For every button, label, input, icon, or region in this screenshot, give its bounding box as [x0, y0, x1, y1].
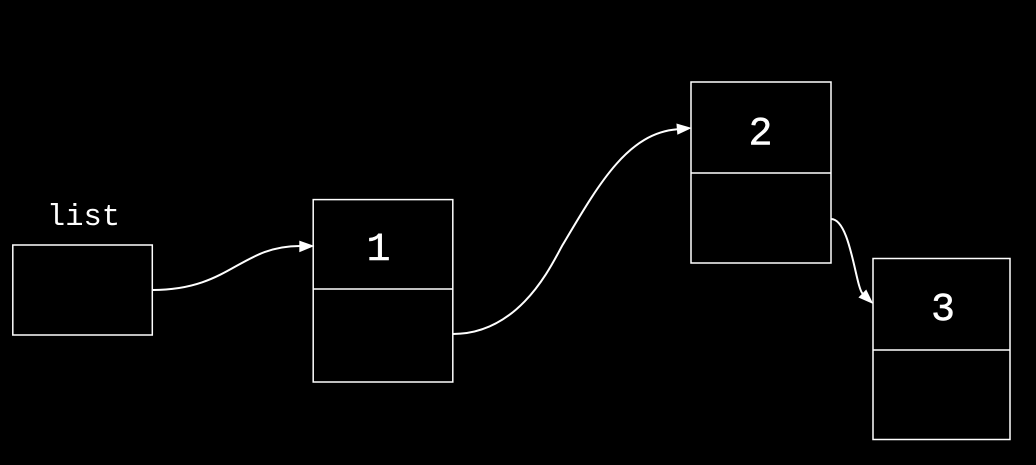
wire arrow node2 to node3: [831, 219, 863, 294]
svg-text:2: 2: [748, 113, 772, 158]
node 2 box: [691, 82, 831, 263]
svg-text:list: list: [47, 201, 120, 235]
node 3 divider: [873, 349, 1010, 351]
wire arrow node1 to node2: [453, 129, 677, 334]
node 2 divider: [691, 172, 831, 174]
node 1 box: [313, 200, 453, 382]
wire arrow list to node1: [153, 246, 301, 290]
svg-text:3: 3: [931, 288, 955, 333]
arrowhead node2 to node3: [859, 290, 872, 303]
node 1 divider: [313, 288, 453, 290]
list pointer box: [13, 245, 153, 335]
node 3 box: [873, 259, 1010, 440]
svg-text:1: 1: [366, 228, 390, 273]
arrowhead node1 to node2: [677, 124, 691, 134]
arrowhead list to node1: [300, 241, 313, 251]
